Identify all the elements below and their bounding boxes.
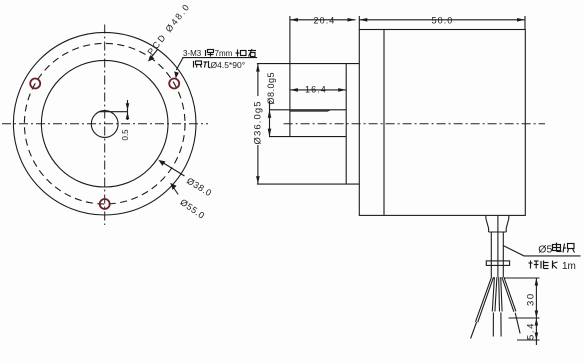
wire dims extension lines [505, 277, 540, 279]
svg-text:5.4: 5.4 [526, 322, 537, 340]
CJK glyph 沉 [194, 61, 202, 68]
shaft flat line [290, 110, 326, 112]
svg-text:7mm: 7mm [215, 49, 233, 58]
CJK glyph 准 [541, 261, 549, 269]
CJK glyph 布 [248, 49, 256, 57]
cable right edge [502, 232, 504, 277]
svg-text:Ø8.0g5: Ø8.0g5 [266, 72, 276, 105]
svg-text:50.0: 50.0 [432, 15, 454, 25]
shaft flat chord [99, 111, 128, 113]
dimension 50.0 [359, 19, 525, 21]
cable center wire [497, 216, 499, 278]
svg-text:30: 30 [526, 292, 537, 306]
hub face line [345, 64, 347, 185]
shaft hole D8 [91, 111, 118, 138]
horizontal centerline [2, 123, 208, 125]
extension line body right [524, 16, 526, 30]
cable left edge [490, 232, 492, 277]
mounting hole H1 (upper-left) [30, 79, 40, 89]
side view centerline [284, 123, 545, 125]
wire W1 tip [471, 322, 477, 339]
PCD D48 dashed circle [24, 43, 185, 204]
svg-text:0.5: 0.5 [121, 129, 130, 141]
svg-text:16.4: 16.4 [305, 84, 327, 94]
CJK glyph 缆 [563, 244, 575, 253]
CJK glyph 深 [206, 50, 214, 57]
inner circle D38 [41, 60, 168, 187]
svg-text:3-M3: 3-M3 [183, 49, 202, 58]
wire W2 outline [492, 277, 497, 311]
dimension D8.0g5 [269, 101, 271, 137]
mounting hole H3 (bottom) [100, 199, 110, 209]
CJK glyph 标 [529, 261, 539, 269]
svg-text:Ø36.0g5: Ø36.0g5 [253, 100, 264, 144]
body rectangle [359, 30, 525, 216]
shaft tip edge + 20.4 extension line [289, 16, 291, 137]
svg-text:Ø4.5*90°: Ø4.5*90° [211, 60, 246, 70]
vertical centerline [104, 25, 106, 226]
wire W2 tip [492, 313, 494, 337]
wire W4 tip [515, 313, 520, 334]
strain relief bottom [489, 231, 507, 233]
svg-text:20.4: 20.4 [314, 15, 336, 25]
hub bottom edge + D36 extension [257, 183, 359, 185]
CJK glyph 均 [236, 50, 247, 57]
CJK glyph 孔 [204, 61, 211, 68]
wire W3 tip [500, 313, 502, 337]
svg-text:Ø5: Ø5 [538, 244, 552, 256]
dimension 0.5 (flat depth) [127, 100, 129, 120]
wire W3 outline [499, 277, 502, 311]
outer circle D55 [13, 32, 196, 215]
wire W1 outline [476, 277, 494, 322]
label PCD D48.0 with leader [150, 50, 158, 60]
dimension 20.4 [290, 19, 356, 21]
dimension D36.0g5 [257, 64, 259, 96]
wire W4 outline [502, 277, 516, 312]
cable label leader [503, 246, 580, 256]
CJK glyph 长 [553, 261, 558, 269]
wire dim line [535, 278, 537, 345]
dimension 16.4 [290, 89, 346, 91]
label D38.0 with leader [161, 162, 185, 177]
label D55.0 with leader [174, 188, 178, 195]
hub top edge + D36 extension [257, 63, 359, 65]
strain relief left profile [486, 216, 489, 233]
shaft bottom edge + D8 extension [269, 136, 346, 138]
mounting hole H2 (upper-right) [169, 79, 179, 89]
svg-text:1m: 1m [562, 261, 576, 272]
flange step line [383, 30, 385, 216]
strain relief right profile [506, 216, 509, 233]
shaft top edge + D8 extension [269, 109, 346, 111]
CJK glyph 电 [553, 243, 562, 252]
extension line body left [358, 16, 360, 30]
cable clamp band [486, 261, 509, 266]
